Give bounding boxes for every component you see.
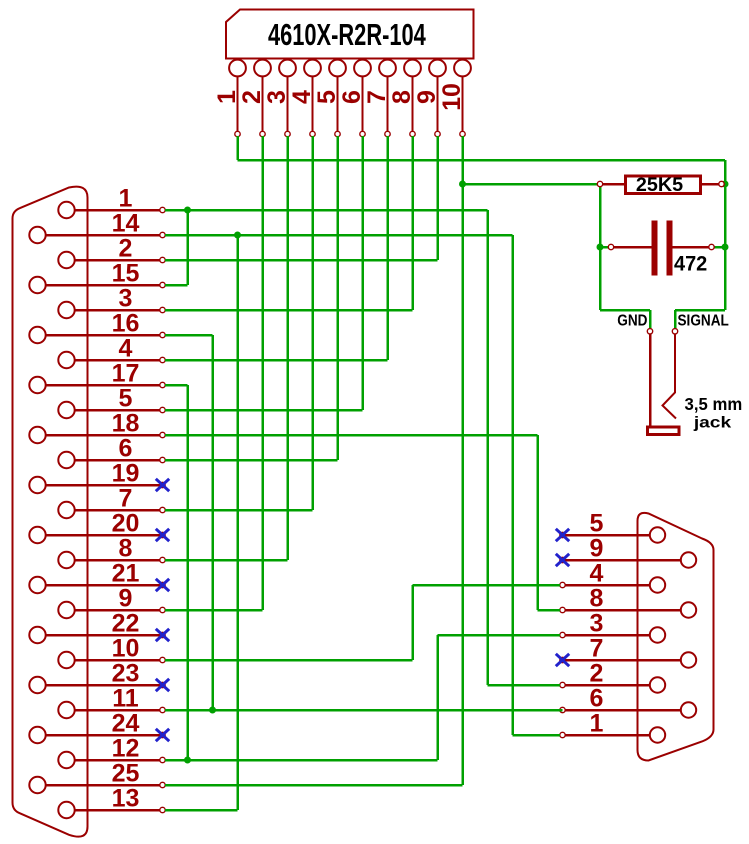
svg-text:4: 4 [590,560,604,588]
RN1 pin 1 (circle, lead, endpoint, number) [213,60,246,137]
wire wire : horizontal row y=785 [165,784,462,787]
wire net GND18 vertical to DB9 pin 8 row [536,435,539,610]
DB25 pin 3 (circle, lead, endpoint, number) [58,285,165,319]
DB25 pin 18 (circle, lead, endpoint, number) [29,410,165,444]
svg-text:25K5: 25K5 [636,174,683,196]
DB25 pin 22 (circle, lead, endpoint, number) [29,610,165,644]
junction net LPT17/12 at row 12 [184,757,191,764]
svg-text:2: 2 [238,90,266,104]
DB25 pin 9 (circle, lead, endpoint, number) [58,585,165,619]
capacitor C1 right lead [673,246,711,249]
wire output net top horizontal y=160 [238,159,726,162]
no-connect X mark on DB25 pin 24 [156,729,169,741]
wire SIGNAL pin drop [674,310,677,328]
svg-text:4610X-R2R-104: 4610X-R2R-104 [268,17,426,52]
DB25 pin 13 (circle, lead, endpoint, number) [58,785,165,819]
DB25 pin 19 (circle, lead, endpoint, number) [29,460,165,494]
wire net D4 (LPT pin 6 to RN1 pin 5) : horizontal row y=460 [165,459,337,462]
DB9 pin 1 (circle, lead, endpoint, number) [560,710,665,743]
wire net LPT14/13 vertical x=237.5 [236,235,239,810]
DB25 pin 10 (circle, lead, endpoint, number) [58,635,165,669]
resistor R1 25K5 right lead [701,183,720,186]
wire net D6 (LPT pin 8 to RN1 pin 3) : horizontal row y=560 [165,559,287,562]
no-connect X mark on DB9 pin 7 [556,654,569,666]
svg-text:10: 10 [112,635,140,663]
wire net LPT17/12 vertical x=187.5 [186,385,189,760]
svg-text:15: 15 [112,260,140,288]
svg-text:1: 1 [119,185,133,213]
GND endpoint [647,329,652,334]
wire net LPT15 branch : horizontal row y=285 [165,284,187,287]
junction net LPT1/15 at row 1 [184,207,191,214]
no-connect X mark on DB25 pin 20 [156,529,169,541]
DB9 pin 4 (circle, lead, endpoint, number) [560,560,665,593]
wire RN1 pin 2 vertical to LPT pin 9 [261,136,264,610]
jack J3 sleeve lead (GND) [649,334,652,426]
no-connect X mark on DB25 pin 21 [156,579,169,591]
wire net LPT17/12 vertical to DB9 pin 3 row [436,635,439,760]
RN1 pin 10 (circle, lead, endpoint, number) [438,60,471,137]
DB25 pin 4 (circle, lead, endpoint, number) [58,335,165,369]
svg-text:8: 8 [119,535,133,563]
wire wire to DB9 pin 3 [438,634,561,637]
DB25 pin 21 (circle, lead, endpoint, number) [29,560,165,594]
wire ground bracket to GND pin y=310 [600,309,650,312]
junction ground at capacitor left [597,244,604,251]
svg-text:14: 14 [112,210,140,238]
svg-text:24: 24 [112,710,140,738]
svg-text:5: 5 [590,510,604,538]
DB25 connector J1 outline [13,187,88,837]
wire net D7 (LPT pin 9 to RN1 pin 2) : horizontal row y=610 [165,609,262,612]
SIGNAL endpoint [672,329,677,334]
svg-text:3: 3 [119,285,133,313]
wire net LPT1/15 vertical x=187.5 [186,209,189,285]
svg-text:25: 25 [112,760,140,788]
wire net LPT14 (pins 14+13 to DB9 pin 1) : horizontal row y=235 [165,234,512,237]
wire net LPT14/13 vertical to DB9 pin 1 row [511,235,514,735]
svg-text:1: 1 [590,710,604,738]
wire GND pin drop [649,310,652,328]
junction net LPT16/11 at row 11 [209,707,216,714]
junction ground at 25K5 branch [459,181,466,188]
svg-text:19: 19 [112,460,140,488]
wire ground net vertical left of RC [599,184,602,310]
jack J3 body [648,427,680,435]
wire RN1 pin 9 vertical to LPT pin 2 [436,136,439,260]
svg-text:6: 6 [590,685,604,713]
wire wire to DB9 pin 8 [538,609,561,612]
DB9 pin 9 (circle, lead, endpoint, number) [560,535,696,568]
svg-text:17: 17 [112,360,140,388]
RN1 pin 6 (circle, lead, endpoint, number) [338,60,371,137]
wire net GND25 (LPT pin 25) horizontal row y=785 [165,784,462,787]
DB25 pin 16 (circle, lead, endpoint, number) [29,310,165,344]
wire capacitor left stub [600,246,609,249]
svg-text:16: 16 [112,310,140,338]
capacitor C1 right plate [667,221,673,276]
wire net LPT13 branch : horizontal row y=810 [165,809,237,812]
svg-text:10: 10 [438,83,466,111]
DB9 pin 2 (circle, lead, endpoint, number) [560,660,665,693]
svg-text:12: 12 [112,735,140,763]
svg-text:22: 22 [112,610,140,638]
svg-text:2: 2 [119,235,133,263]
wire net LPT17 branch : horizontal row y=385 [165,384,187,387]
RN1 pin 7 (circle, lead, endpoint, number) [363,60,396,137]
capacitor C1 left plate [652,221,658,276]
no-connect X mark on DB9 pin 5 [556,529,569,541]
wire net LPT16 (pins 16+11 to DB9 pin 6) : horizontal row y=335 [165,334,212,337]
wire net GND18 (LPT pin 18 to DB9 pin 8) : horizontal row y=435 [165,434,537,437]
svg-text:5: 5 [313,90,341,104]
wire RN1 pin 8 vertical to LPT pin 3 [411,136,414,310]
svg-text:4: 4 [288,90,316,104]
wire net LPT16/11 vertical x=212.5 [211,335,214,710]
RN1 pin 9 (circle, lead, endpoint, number) [413,60,446,137]
svg-text:7: 7 [363,90,391,104]
DB9 pin 6 (circle, lead, endpoint, number) [560,685,696,718]
RN1 pin 2 (circle, lead, endpoint, number) [238,60,271,137]
wire net LPT11 : horizontal row y=710 [165,709,562,712]
DB25 pin 23 (circle, lead, endpoint, number) [29,660,165,694]
RN1 pin 8 (circle, lead, endpoint, number) [388,60,421,137]
svg-text:9: 9 [413,90,441,104]
no-connect X mark on DB25 pin 19 [156,479,169,491]
svg-text:4: 4 [119,335,133,363]
wire signal bracket to SIGNAL pin y=310 [675,309,725,312]
no-connect X mark on DB9 pin 9 [556,554,569,566]
DB9 pin 5 (circle, lead, endpoint, number) [560,510,665,543]
no-connect X mark on DB25 pin 22 [156,629,169,641]
wire RN1 pin 1 output drop [236,136,239,160]
RN1 pin 3 (circle, lead, endpoint, number) [263,60,296,137]
DB9 pin 8 (circle, lead, endpoint, number) [560,585,696,618]
DB25 pin 5 (circle, lead, endpoint, number) [58,385,165,419]
DB25 pin 24 (circle, lead, endpoint, number) [29,710,165,744]
DB25 pin 17 (circle, lead, endpoint, number) [29,360,165,394]
resistor R1 25K5 left lead [602,183,625,186]
wire RN1 pin 7 vertical to LPT pin 4 [386,136,389,360]
RN1 pin 5 (circle, lead, endpoint, number) [313,60,346,137]
wire net D2 (LPT pin 4 to RN1 pin 7) : horizontal row y=360 [165,359,387,362]
DB25 pin 7 (circle, lead, endpoint, number) [58,485,165,519]
DB9 connector J2 outline [638,513,714,761]
wire net LPT10 (to DB9 pin 4) : horizontal row y=660 [165,659,412,662]
svg-text:21: 21 [112,560,140,588]
svg-text:8: 8 [590,585,604,613]
wire net D1 (LPT pin 3 to RN1 pin 8) : horizontal row y=310 [165,309,412,312]
wire net LPT12 branch : horizontal row y=760 [165,759,437,762]
resistor network RN1 package 4610X-R2R-104 [226,10,474,59]
DB9 pin 7 (circle, lead, endpoint, number) [560,635,696,668]
wire wire to DB9 pin 2 [488,684,561,687]
DB25 pin 25 (circle, lead, endpoint, number) [29,760,165,794]
junction net LPT14/13 at row 14 [234,232,241,239]
wire RN1 pin 10 ground vertical to LPT pin 25 [461,136,464,785]
wire RN1 pin 5 vertical to LPT pin 6 [336,136,339,460]
DB25 pin 2 (circle, lead, endpoint, number) [58,235,165,269]
svg-text:9: 9 [119,585,133,613]
svg-text:23: 23 [112,660,140,688]
resistor R1 25K5 body [626,176,701,194]
junction output at capacitor right [722,244,729,251]
wire wire to DB9 pin 1 [513,734,561,737]
capacitor C1 left lead [613,246,652,249]
svg-text:6: 6 [119,435,133,463]
svg-text:GND: GND [617,312,647,329]
wire net LPT10 vertical to DB9 pin 4 row [411,585,414,660]
svg-text:472: 472 [674,252,707,276]
svg-text:8: 8 [388,90,416,104]
DB25 pin 14 (circle, lead, endpoint, number) [29,210,165,244]
wire net D0 (LPT pin 2 to RN1 pin 9) : horizontal row y=260 [165,259,437,262]
svg-text:18: 18 [112,410,140,438]
svg-text:1: 1 [213,90,241,104]
jack J3 tip contact (SIGNAL) [663,334,677,419]
DB25 pin 11 (circle, lead, endpoint, number) [58,685,165,719]
wire output net vertical right side [724,160,727,310]
svg-text:5: 5 [119,385,133,413]
svg-text:SIGNAL: SIGNAL [678,312,729,329]
svg-text:jack: jack [693,413,732,431]
svg-text:3: 3 [590,610,604,638]
junction output at 25K5 right [722,181,729,188]
svg-text:13: 13 [112,785,140,813]
DB25 pin 15 (circle, lead, endpoint, number) [29,260,165,294]
DB25 pin 8 (circle, lead, endpoint, number) [58,535,165,569]
DB25 pin 20 (circle, lead, endpoint, number) [29,510,165,544]
svg-text:6: 6 [338,90,366,104]
wire capacitor right stub [714,246,725,249]
svg-text:20: 20 [112,510,140,538]
wire RN1 pin 4 vertical to LPT pin 7 [311,136,314,510]
wire net D3 (LPT pin 5 to RN1 pin 6) : horizontal row y=410 [165,409,362,412]
DB25 pin 6 (circle, lead, endpoint, number) [58,435,165,469]
svg-text:2: 2 [590,660,604,688]
wire net LPT1/15 vertical to DB9 pin 2 row [486,210,489,685]
svg-text:7: 7 [590,635,604,663]
wire wire to DB9 pin 4 [413,584,561,587]
wire RN1 pin 6 vertical to LPT pin 5 [361,136,364,410]
DB9 pin 3 (circle, lead, endpoint, number) [560,610,665,643]
svg-text:3,5 mm: 3,5 mm [685,393,743,414]
wire RN1 pin 3 vertical to LPT pin 8 [286,136,289,560]
DB25 pin 12 (circle, lead, endpoint, number) [58,735,165,769]
svg-text:7: 7 [119,485,133,513]
wire net LPT1 (pins 1+15 to DB9 pin 2) : horizontal row y=210 [165,209,487,212]
wire ground branch to 25K5 left y=184 [463,183,598,186]
svg-text:11: 11 [112,685,139,713]
svg-text:3: 3 [263,90,291,104]
no-connect X mark on DB25 pin 23 [156,679,169,691]
DB25 pin 1 (circle, lead, endpoint, number) [58,185,165,219]
wire net D5 (LPT pin 7 to RN1 pin 4) : horizontal row y=510 [165,509,312,512]
svg-text:9: 9 [590,535,604,563]
RN1 pin 4 (circle, lead, endpoint, number) [288,60,321,137]
